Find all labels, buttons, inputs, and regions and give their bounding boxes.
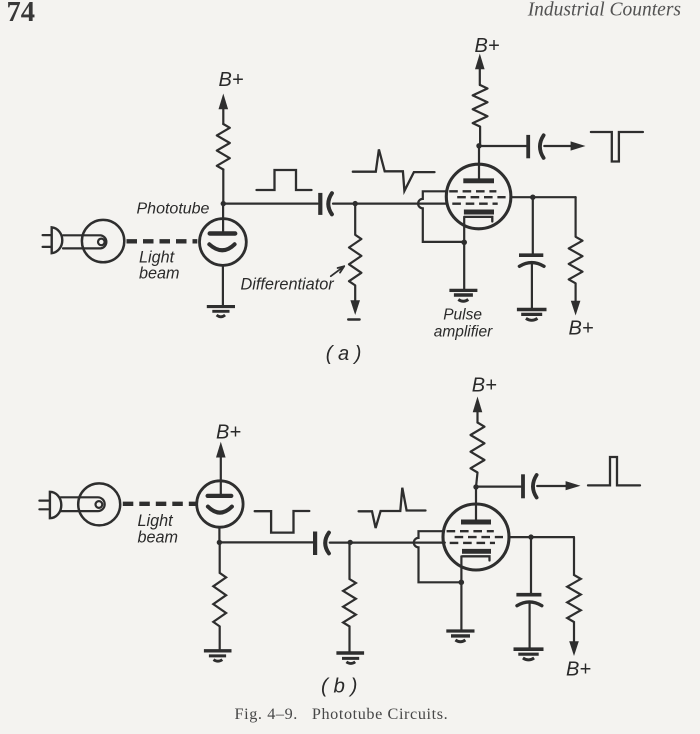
node cathode junction (b) — [459, 580, 465, 586]
arrow to B+ phototube supply (b) — [220, 452, 222, 494]
arrow to B+ plate supply (a) — [479, 64, 481, 85]
wire plate to output capacitor C2 (a) — [479, 145, 526, 147]
svg-text:( a ): ( a ) — [326, 343, 362, 365]
pentode V2 pulse amplifier (a): envelope — [446, 164, 511, 229]
node plate junction (a) — [476, 143, 481, 148]
waveform output positive pulse (b) — [588, 457, 640, 485]
capacitor C4 coupling (b): left plate — [313, 532, 317, 556]
ground R6 (b) — [336, 653, 364, 664]
ground bypass capacitor (b) — [514, 649, 544, 660]
resistor R1 phototube load (a) — [217, 124, 230, 170]
node screen junction (b) — [528, 534, 533, 539]
wire suppressor-to-cathode with crossover hop (b) — [414, 531, 461, 582]
capacitor C6 screen bypass (b): top plate — [516, 593, 541, 597]
light beam dashed (b) — [123, 502, 197, 506]
capacitor C2 output coupling (a): curved plate — [540, 135, 544, 158]
pentode V4 (b): cathode hook — [463, 556, 490, 560]
svg-text:amplifier: amplifier — [434, 324, 493, 341]
wire node to coupling capacitor C4 (b) — [219, 541, 313, 543]
phototube V3 (b): anode bar — [208, 494, 232, 498]
svg-text:Light: Light — [138, 512, 175, 530]
svg-text:Fig. 4–9. Phototube Circuits: Fig. 4–9. Phototube Circuits. — [235, 705, 449, 723]
lamp light source (b): plug prongs — [39, 501, 48, 510]
wire node to coupling capacitor C1 (a) — [223, 203, 317, 205]
capacitor C5 output coupling (b): curved plate — [533, 475, 537, 498]
wire node to bypass capacitor C6 (b) — [530, 537, 532, 593]
capacitor C4 coupling (b): curved plate — [325, 533, 329, 554]
node screen junction (a) — [530, 195, 535, 200]
arrow to B+ screen supply (a) — [571, 301, 581, 316]
capacitor C3 screen bypass (a): top plate — [519, 253, 543, 257]
pentode V2 (a): screen grid dashes — [457, 196, 505, 198]
waveform negative square pulse (b) — [255, 511, 310, 533]
svg-text:B+: B+ — [472, 375, 497, 397]
lamp (b): filament loop — [96, 501, 103, 508]
resistor R8 screen dropping (b) — [567, 537, 581, 645]
minus terminal bar (a) — [348, 318, 359, 320]
arrow to B+ plate supply (b) — [476, 407, 478, 423]
capacitor C1 coupling (a): curved plate — [328, 193, 332, 214]
svg-text:B+: B+ — [216, 422, 241, 444]
svg-text:Differentiator: Differentiator — [241, 276, 335, 294]
svg-text:B+: B+ — [566, 659, 591, 681]
wire C6 to ground (b) — [528, 603, 530, 648]
arrow to B+ screen supply (b) — [569, 641, 579, 656]
node grid resistor junction (b) — [348, 540, 353, 545]
svg-text:beam: beam — [138, 529, 179, 547]
ground cathode (a) — [449, 290, 477, 301]
pentode V2 (a): plate lead — [478, 146, 480, 179]
node plate junction (b) — [473, 484, 478, 489]
waveform differentiated spike (a) — [353, 149, 435, 191]
phototube V1 (a): anode bar — [210, 231, 236, 235]
pentode V4 (b): screen grid dashes — [455, 536, 503, 538]
capacitor C5 output coupling (b): left plate — [521, 474, 525, 498]
pentode V4 (b): cathode lead — [460, 556, 462, 629]
wire screen grid to right (b) — [509, 536, 574, 538]
resistor R3 plate load (a) — [473, 85, 488, 146]
pentode V4 (b): control grid dashes — [450, 542, 495, 544]
ground bypass capacitor (a) — [517, 310, 547, 321]
phototube V3 (b): cathode arc — [208, 507, 232, 513]
node cathode junction (a) — [461, 240, 467, 246]
wire node to bypass capacitor C3 (a) — [532, 197, 534, 253]
phototube V3 (b): cathode lead — [218, 527, 220, 542]
lamp (b): bulb envelope — [78, 483, 120, 525]
svg-text:74: 74 — [7, 0, 36, 28]
svg-text:B+: B+ — [475, 35, 500, 57]
phototube V1 (a): anode lead — [222, 204, 224, 232]
svg-text:B+: B+ — [219, 69, 244, 91]
ground phototube cathode (a) — [207, 307, 235, 317]
waveform differentiated spike (b) — [359, 488, 426, 528]
waveform output negative pulse (a) — [591, 132, 643, 162]
capacitor C3 screen bypass (a): curved plate — [519, 263, 544, 267]
pentode V2 (a): plate bar — [463, 178, 494, 183]
lamp (a): base dome — [52, 227, 63, 253]
wire screen grid to right (a) — [511, 196, 576, 198]
arrow to B+ phototube supply (a) — [222, 104, 224, 124]
lamp (b): neck — [61, 497, 105, 511]
phototube V1 (a): envelope — [200, 219, 247, 266]
phototube V1 (a): cathode lead — [222, 265, 224, 305]
resistor R2 differentiator (a) — [349, 206, 361, 303]
pentode V2 (a): suppressor grid dashes — [449, 190, 496, 192]
ground cathode (b) — [446, 631, 474, 642]
lamp (a): neck — [63, 235, 106, 248]
wire R1 to anode node (a) — [222, 170, 224, 204]
wire C3 to ground (a) — [531, 264, 533, 309]
lamp (b): base dome — [50, 492, 61, 518]
output arrow (b) — [537, 485, 567, 487]
pentode V2 (a): cathode lead — [463, 217, 465, 289]
capacitor C1 coupling (a): left plate — [318, 193, 322, 215]
pentode V2 (a): cathode hook — [465, 217, 493, 222]
resistor R7 plate load (b) — [471, 423, 485, 488]
lamp (a): filament loop — [98, 239, 105, 246]
wire C4 to grid of V4 (b) — [330, 541, 445, 543]
node cathode junction (b) — [217, 540, 222, 545]
resistor R4 screen dropping (a) — [569, 197, 583, 304]
svg-text:Industrial Counters: Industrial Counters — [527, 0, 681, 21]
pentode V4 pulse amplifier (b): envelope — [443, 504, 509, 570]
wire C1 to grid of V2 (a) — [333, 203, 447, 205]
pentode V4 (b): plate lead — [475, 487, 477, 520]
resistor R6 grid leak (b) — [343, 543, 356, 652]
lamp (a): bulb envelope — [82, 220, 124, 262]
pentode V2 (a): control grid dashes — [452, 202, 497, 204]
wire suppressor-to-cathode with crossover hop (a) — [418, 191, 464, 242]
output arrow (a) — [544, 145, 572, 147]
pentode V2 (a): cathode bar — [464, 210, 494, 215]
phototube V3 (b): envelope — [197, 481, 243, 527]
capacitor C2 output coupling (a): left plate — [526, 135, 530, 158]
svg-text:( b ): ( b ) — [321, 674, 357, 697]
node differentiator junction (a) — [353, 201, 358, 206]
capacitor C6 screen bypass (b): curved plate — [517, 602, 542, 606]
lamp light source (a): plug prongs — [43, 235, 52, 247]
phototube V1 (a): cathode arc — [209, 244, 234, 250]
pentode V4 (b): suppressor grid dashes — [447, 530, 494, 532]
pentode V4 (b): plate bar — [461, 520, 491, 525]
resistor R5 phototube load (b) — [213, 542, 226, 649]
svg-text:Phototube: Phototube — [137, 201, 210, 218]
light beam dashed (a) — [127, 239, 198, 243]
svg-text:beam: beam — [139, 265, 180, 283]
waveform square pulse (a) — [257, 170, 312, 190]
svg-text:Pulse: Pulse — [443, 307, 482, 324]
node anode junction (a) — [221, 201, 226, 206]
svg-text:B+: B+ — [569, 318, 594, 340]
ground R5 (b) — [204, 651, 232, 661]
wire plate to output capacitor C5 (b) — [476, 486, 521, 488]
arrow to minus terminal of R2 (a) — [350, 300, 360, 315]
pentode V4 (b): cathode bar — [462, 549, 491, 554]
